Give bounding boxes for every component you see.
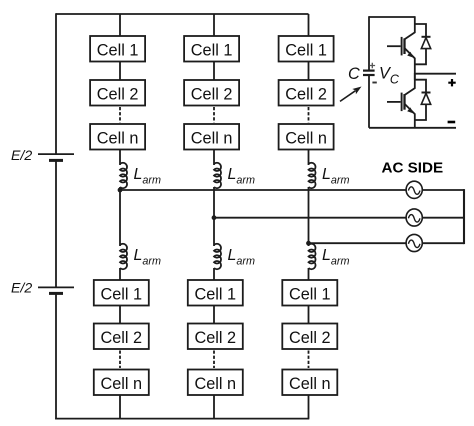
wire phase B line: [214, 217, 464, 219]
svg-text:Cell n: Cell n: [194, 375, 236, 393]
wire col1 upper dashed c2-cn: [119, 107, 121, 123]
svg-text:Cell 2: Cell 2: [191, 86, 233, 104]
wire bottom DC bus: [55, 418, 309, 420]
ac source Vb: [406, 209, 422, 226]
inductor Larm col1 upper: [120, 163, 127, 188]
wire col1 upper cn-coil: [119, 150, 121, 166]
svg-text:Larm: Larm: [322, 247, 350, 268]
svg-text:Larm: Larm: [228, 166, 256, 187]
wire col1 lower dashed c2-cn: [119, 351, 121, 369]
inductor Larm col1 lower: [120, 244, 127, 269]
wire col2 bottom drop: [213, 395, 215, 419]
wire col3 bottom drop: [308, 395, 310, 419]
cell box col3 upper Cell 1: [279, 36, 334, 62]
svg-text:Cell 2: Cell 2: [289, 329, 331, 347]
wire col3 mid vertical: [308, 187, 310, 246]
svg-text:Cell n: Cell n: [100, 375, 142, 393]
inductor Larm col2 lower: [214, 244, 221, 269]
cell box col2 lower Cell 1: [188, 280, 243, 306]
cell box col3 lower Cell n: [282, 370, 337, 396]
cell box col2 upper Cell 2: [184, 80, 239, 106]
wire inset left upper: [368, 16, 370, 69]
transistor T2 (lower IGBT): [387, 73, 415, 114]
wire phase C line: [309, 242, 465, 244]
svg-text:Cell n: Cell n: [97, 130, 139, 148]
wire inset bottom rail: [369, 127, 456, 129]
ac source Vc: [406, 234, 422, 251]
wire col1 mid vertical: [119, 187, 121, 246]
node phase a junction: [118, 188, 123, 193]
cell box col1 lower Cell 2: [94, 324, 149, 350]
wire top DC bus: [56, 13, 309, 15]
cell box col1 lower Cell 1: [94, 280, 149, 306]
cell box col1 upper Cell n: [90, 124, 145, 150]
node phase b junction: [212, 215, 217, 220]
wire left DC rail lower: [55, 293, 57, 419]
wire left DC rail middle: [55, 160, 57, 287]
svg-text:Larm: Larm: [134, 166, 162, 187]
wire col1 bottom drop: [119, 395, 121, 419]
wire AC right bus: [463, 189, 465, 244]
cell box col1 lower Cell n: [94, 370, 149, 396]
wire inset left lower: [368, 76, 370, 128]
svg-text:Cell 1: Cell 1: [194, 286, 236, 304]
svg-text:Cell 2: Cell 2: [97, 86, 139, 104]
wire col1 coil-cell1 lower: [119, 268, 121, 281]
wire col1 top drop: [119, 14, 121, 37]
wire output terminal: [415, 73, 456, 75]
wire col2 upper cn-coil: [213, 150, 215, 166]
diode D2 (lower): [415, 80, 431, 120]
cell box col1 upper Cell 2: [90, 80, 145, 106]
inductor Larm col3 upper: [309, 163, 316, 188]
ac source Va: [406, 181, 422, 198]
svg-text:Cell 1: Cell 1: [191, 42, 233, 60]
arrow cell-to-submodule pointer: [340, 87, 362, 102]
wire T1 emitter to output: [414, 58, 416, 74]
svg-text:E/2: E/2: [11, 147, 32, 163]
svg-text:Cell 2: Cell 2: [100, 329, 142, 347]
wire col2 upper c1-c2: [213, 62, 215, 82]
wire col3 upper c1-c2: [308, 62, 310, 82]
transistor T1 (upper IGBT): [387, 16, 415, 58]
battery E/2 bottom: [38, 287, 74, 293]
wire col3 coil-cell1 lower: [308, 268, 310, 281]
svg-text:Cell 2: Cell 2: [194, 329, 236, 347]
cell box col3 upper Cell 2: [279, 80, 334, 106]
svg-text:E/2: E/2: [11, 280, 32, 296]
wire col2 mid vertical: [213, 187, 215, 246]
wire col2 top drop: [213, 14, 215, 37]
svg-text:Larm: Larm: [134, 247, 162, 268]
wire col3 lower dashed c2-cn: [308, 351, 310, 369]
cell box col3 upper Cell n: [279, 124, 334, 150]
svg-text:Larm: Larm: [322, 166, 350, 187]
svg-text:VC: VC: [379, 65, 400, 87]
wire col3 upper cn-coil: [308, 150, 310, 166]
svg-text:Cell 1: Cell 1: [97, 42, 139, 60]
wire col1 lower c1-c2: [119, 306, 121, 325]
svg-text:Cell n: Cell n: [285, 130, 327, 148]
battery E/2 top: [38, 154, 74, 160]
wire col2 lower c1-c2: [213, 306, 215, 325]
wire col3 top drop: [308, 14, 310, 37]
svg-text:Cell 1: Cell 1: [285, 42, 327, 60]
svg-text:AC SIDE: AC SIDE: [382, 160, 444, 177]
svg-text:C: C: [348, 65, 360, 83]
svg-text:Cell n: Cell n: [191, 130, 233, 148]
inductor Larm col3 lower: [309, 244, 316, 269]
diode D1 (upper): [415, 24, 431, 64]
svg-text:Cell n: Cell n: [289, 375, 331, 393]
cell box col2 upper Cell n: [184, 124, 239, 150]
wire col1 upper c1-c2: [119, 62, 121, 82]
cell box col2 lower Cell 2: [188, 324, 243, 350]
wire inset top rail: [369, 16, 415, 18]
label plus output: [448, 79, 455, 86]
svg-text:Larm: Larm: [228, 247, 256, 268]
wire phase A line: [120, 189, 464, 191]
wire col3 upper dashed c2-cn: [308, 107, 310, 123]
cell box col2 lower Cell n: [188, 370, 243, 396]
cell box col1 upper Cell 1: [90, 36, 145, 62]
label minus output: [448, 121, 456, 124]
inductor Larm col2 upper: [214, 163, 221, 188]
svg-text:Cell 1: Cell 1: [289, 286, 331, 304]
wire T2 collector from output: [414, 74, 416, 80]
wire col2 coil-cell1 lower: [213, 268, 215, 281]
wire T2 emitter to bottom rail: [414, 114, 416, 128]
cell box col3 lower Cell 2: [282, 324, 337, 350]
svg-text:Cell 1: Cell 1: [100, 286, 142, 304]
wire col2 lower dashed c2-cn: [213, 351, 215, 369]
wire col3 lower c1-c2: [308, 306, 310, 325]
cell box col3 lower Cell 1: [282, 280, 337, 306]
wire col2 upper dashed c2-cn: [213, 107, 215, 123]
svg-text:Cell 2: Cell 2: [285, 86, 327, 104]
capacitor C: [363, 63, 377, 83]
cell box col2 upper Cell 1: [184, 36, 239, 62]
node phase c junction: [306, 241, 311, 246]
wire left DC rail upper: [55, 13, 57, 154]
